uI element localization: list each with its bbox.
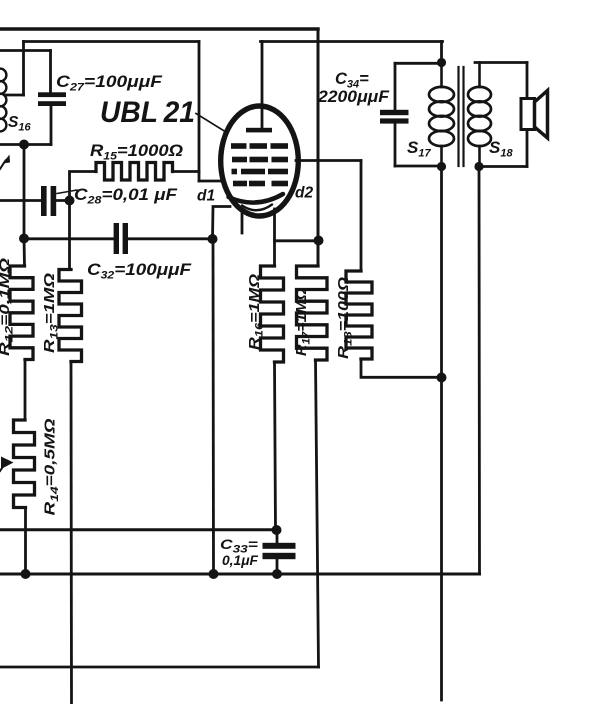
svg-text:R17=1MΩ: R17=1MΩ <box>293 288 313 356</box>
capacitor C28 right plate <box>51 186 57 216</box>
wire R13 bottom lead full height <box>70 362 73 704</box>
node junction at (24,144) <box>19 140 29 150</box>
wire stub to coil S16 tap <box>5 94 24 97</box>
wire corner down to transformer <box>440 42 443 63</box>
wire R14 bottom lead <box>24 508 27 575</box>
wire S17 top wire <box>395 62 442 65</box>
wire vertical at x23.5 from detector line <box>22 42 25 96</box>
svg-text:R13=1MΩ: R13=1MΩ <box>41 273 61 353</box>
node junction transformer primary top <box>437 58 446 67</box>
wire branch to center node <box>275 239 319 242</box>
wire d2 line from tube to R18 <box>296 159 361 162</box>
wire line y530 from left edge <box>0 528 276 531</box>
wire vertical x199 grid/diode line <box>198 42 201 182</box>
wire line y144 from left edge to C27 <box>0 143 51 146</box>
capacitor C27 bottom plate <box>38 101 66 106</box>
wire S17 bottom wire <box>395 165 442 168</box>
speaker horn <box>535 91 548 139</box>
wire vertical x24 down to AVC node <box>23 145 26 239</box>
tube grid dashed electrodes <box>231 143 247 149</box>
capacitor C33 bottom plate <box>263 553 296 559</box>
node junction S17 bottom <box>437 162 446 171</box>
wire ground rail y574 <box>0 573 480 576</box>
arrow potentiometer wiper at R14 <box>1 457 14 470</box>
coil S16 winding loops <box>0 69 6 82</box>
wire C32 right lead <box>128 237 212 240</box>
tube heater pin stub <box>241 210 244 233</box>
resistor R18 <box>346 271 372 359</box>
wire R16 bottom lead <box>275 362 276 530</box>
leader line from C28 label <box>57 190 77 194</box>
wire line y239 to C32 <box>24 237 114 240</box>
wire S18 right side lower <box>526 130 529 167</box>
capacitor C27 top plate <box>38 92 66 97</box>
svg-text:d1: d1 <box>197 188 215 205</box>
wire C28 left lead <box>0 199 41 202</box>
wire output vertical x441 to bottom <box>440 167 443 701</box>
wire secondary vertical x479 <box>478 167 481 575</box>
node junction R18 to output line <box>437 373 447 383</box>
node junction S18 bottom <box>474 162 483 171</box>
tube U1 envelope <box>221 106 299 216</box>
node junction at (24,238) <box>19 234 29 244</box>
arrow tuning pointer near S16 <box>0 161 6 170</box>
wire S18 right side upper <box>526 63 529 99</box>
wire R18 top lead <box>360 161 363 272</box>
wire C34 top lead <box>394 63 397 110</box>
node junction C28 output <box>65 196 75 206</box>
wire R12-R14 link <box>24 360 27 421</box>
wire R12 top lead <box>23 239 26 267</box>
resistor R17 <box>297 266 328 360</box>
node junction x213 bottom <box>209 569 219 579</box>
wire anode top lead <box>261 42 264 129</box>
wire tube pin lead down to R16 <box>273 209 276 266</box>
wire C33 bottom lead <box>276 559 279 574</box>
wire bottom return rail <box>0 666 319 669</box>
capacitor C34 bottom plate <box>380 118 409 123</box>
node junction C32 right <box>208 234 218 244</box>
wire C27 bottom lead <box>50 106 53 145</box>
capacitor C34 top plate <box>380 110 409 115</box>
svg-text:R16=1MΩ: R16=1MΩ <box>246 274 266 350</box>
speaker driver rectangle <box>521 99 535 130</box>
wire right-side vertical to junction <box>317 162 320 240</box>
capacitor C33 top plate <box>263 543 296 549</box>
node junction at (318,240) <box>314 236 324 246</box>
svg-text:0,1μF: 0,1μF <box>222 552 258 568</box>
wire vertical from C32 node up and into tube cathode <box>213 207 231 240</box>
capacitor C28 left plate <box>41 186 47 216</box>
node junction C33 top <box>272 525 282 535</box>
resistor R15 <box>96 163 173 181</box>
wire S18 top wire <box>475 61 527 64</box>
coil S17 primary winding <box>440 63 443 88</box>
tube anode plate bar <box>246 128 272 133</box>
wire C33 top lead <box>276 530 279 543</box>
coil S18 secondary winding <box>478 63 481 88</box>
wire C34 bottom lead <box>394 124 397 166</box>
resistor R13 <box>59 270 82 362</box>
wire anode line y41 right segment <box>261 40 443 43</box>
wire detector line y41 left segment <box>24 40 200 43</box>
wire vertical x213 down to bottom rail <box>212 239 215 574</box>
wire C27 top lead <box>49 51 52 93</box>
node junction C33 bottom <box>272 569 282 579</box>
svg-text:2200μμF: 2200μμF <box>317 88 390 106</box>
wire C28 right lead <box>56 199 69 202</box>
node junction R14 bottom <box>21 569 31 579</box>
resistor R14 <box>14 420 35 508</box>
wire R13 top lead <box>68 201 71 270</box>
resistor R12 <box>10 266 33 360</box>
wire R17 bottom lead long vertical <box>316 360 319 667</box>
capacitor C32 right plate <box>123 223 128 254</box>
capacitor C32 left plate <box>114 223 119 254</box>
wire R15 right lead <box>173 170 200 173</box>
wire d1 horizontal into tube <box>199 180 223 183</box>
wire R15 left lead corner <box>70 172 97 201</box>
wire bus corner down right side <box>317 29 320 162</box>
wire from junction down to R17 <box>317 241 320 267</box>
svg-text:R18=100Ω: R18=100Ω <box>335 277 355 359</box>
svg-text:UBL 21: UBL 21 <box>100 96 195 129</box>
pointer line from UBL21 label to tube <box>196 114 228 134</box>
tube cathode arc <box>229 194 284 203</box>
transformer core lines <box>457 67 459 166</box>
svg-text:d2: d2 <box>295 185 313 202</box>
resistor R16 <box>261 266 284 362</box>
wire top supply bus <box>0 27 318 31</box>
wire line y50 from left edge <box>0 49 51 52</box>
wire R18 bottom corner to transformer line <box>361 359 442 377</box>
wire S18 bottom wire <box>479 165 527 168</box>
tube heater arc <box>242 205 272 211</box>
